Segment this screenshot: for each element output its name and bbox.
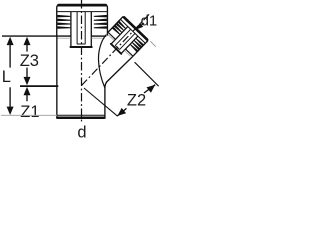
socket rib right 4: [94, 26, 107, 29]
Z3 dimension line upper: [26, 45, 28, 52]
socket rib right 1: [94, 15, 107, 18]
d1 leader arrowhead: [136, 23, 144, 30]
branch bore inner lower: [120, 33, 135, 49]
axis crossing extension line: [20, 85, 58, 87]
socket rib left 2: [57, 19, 70, 22]
branch-to-pipe weld seam curve: [98, 35, 106, 89]
socket rib left 4: [57, 26, 70, 29]
Z2 extension line from axis crossing: [84, 88, 118, 116]
socket rib right 2: [94, 19, 107, 22]
socket shoulder detail line right (grey): [92, 37, 105, 39]
pipe left wall: [56, 36, 58, 118]
branch rib upper 3: [114, 25, 122, 33]
socket bore bottom: [77, 43, 86, 45]
branch sleeve outer lower: [121, 36, 138, 53]
socket shoulder detail line left (grey): [58, 37, 71, 39]
main centerline (dash-dot): [81, 0, 83, 122]
branch shoulder lower part: [126, 49, 133, 56]
svg-text:d: d: [77, 123, 86, 138]
socket rib right 3: [94, 22, 107, 25]
svg-text:L: L: [2, 68, 11, 86]
socket bore inner left: [76, 12, 78, 44]
Z3 dimension arrow down: [24, 77, 31, 85]
Z2 arrow lower: [117, 108, 126, 116]
branch socket outline: [108, 17, 148, 56]
socket sleeve bottom (thick): [71, 46, 92, 48]
L dimension line lower: [9, 87, 11, 107]
Z1 dimension line: [26, 95, 28, 102]
branch socket inner face line: [121, 20, 145, 43]
socket sleeve outer left: [70, 12, 72, 47]
svg-text:Z2: Z2: [127, 91, 146, 109]
Z2 arrow upper: [146, 85, 155, 93]
branch sleeve bottom (thick): [111, 44, 121, 54]
socket rib left 1: [57, 15, 70, 18]
branch tube lower wall: [105, 56, 133, 88]
branch rib upper 4: [112, 27, 120, 35]
Z2 dimension line upper stub: [144, 85, 155, 93]
Z1 dimension arrow up: [24, 87, 31, 95]
branch rib upper 2: [116, 23, 124, 31]
main socket outline (walls + top): [57, 5, 108, 36]
branch shoulder grey line lower: [125, 51, 131, 57]
pipe end chamfer line: [57, 114, 105, 116]
branch rib lower 2: [134, 40, 142, 48]
branch centerline (dash-dot): [82, 14, 150, 85]
pipe end extension line (grey): [1, 114, 57, 116]
Z3 dimension arrow up: [24, 37, 31, 45]
main socket face edge (thick): [59, 4, 106, 7]
L dimension line upper: [9, 45, 11, 68]
Z2 dimension line lower stub: [117, 108, 126, 116]
socket shoulder right: [91, 35, 106, 37]
socket sleeve outer right: [90, 12, 92, 47]
socket shoulder + L/Z3 extension line: [2, 35, 71, 37]
branch shoulder upper part: [108, 33, 115, 40]
branch rib lower 3: [132, 42, 140, 50]
pipe end edge (thick): [57, 116, 104, 119]
main socket inner face line: [57, 11, 107, 13]
face plane extension stub at P2 (grey): [150, 41, 156, 47]
branch sleeve outer upper: [111, 27, 128, 44]
socket rib left 3: [57, 22, 70, 25]
svg-text:Z1: Z1: [20, 103, 39, 121]
Z3 dimension line lower: [26, 68, 28, 77]
branch socket face edge (thick): [124, 17, 147, 39]
branch bore bottom: [115, 45, 120, 49]
pipe right wall: [104, 88, 106, 118]
socket bore inner right: [84, 12, 86, 44]
svg-text:Z3: Z3: [20, 52, 39, 70]
branch rib upper 1: [118, 21, 126, 29]
Z2 extension line from branch shoulder: [135, 62, 159, 86]
branch bore inner upper: [115, 29, 130, 45]
branch rib lower 4: [130, 44, 138, 52]
branch rib lower 1: [136, 38, 144, 46]
d1 leader line: [136, 23, 145, 30]
L dimension arrow down: [7, 107, 14, 115]
L dimension arrow up: [7, 37, 14, 45]
branch shoulder grey line upper: [108, 35, 114, 41]
